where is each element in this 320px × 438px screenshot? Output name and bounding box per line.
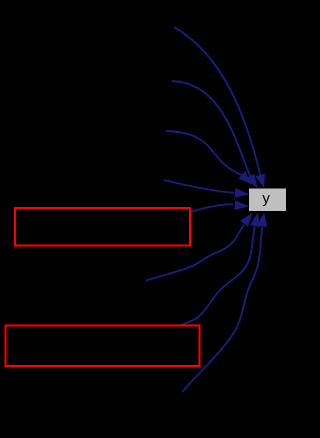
edge G — [182, 227, 262, 392]
node y (current, gray) — [249, 189, 286, 212]
edge E — [146, 225, 244, 281]
edge A — [174, 27, 260, 175]
node box 2 (red highlighted) — [6, 326, 200, 367]
label y — [262, 195, 269, 206]
edge R1 — [191, 204, 233, 211]
node box 1 (red highlighted) — [15, 208, 190, 246]
edge D — [164, 180, 234, 193]
edge B — [172, 81, 250, 176]
edge F — [180, 227, 255, 326]
edge C — [166, 131, 242, 175]
